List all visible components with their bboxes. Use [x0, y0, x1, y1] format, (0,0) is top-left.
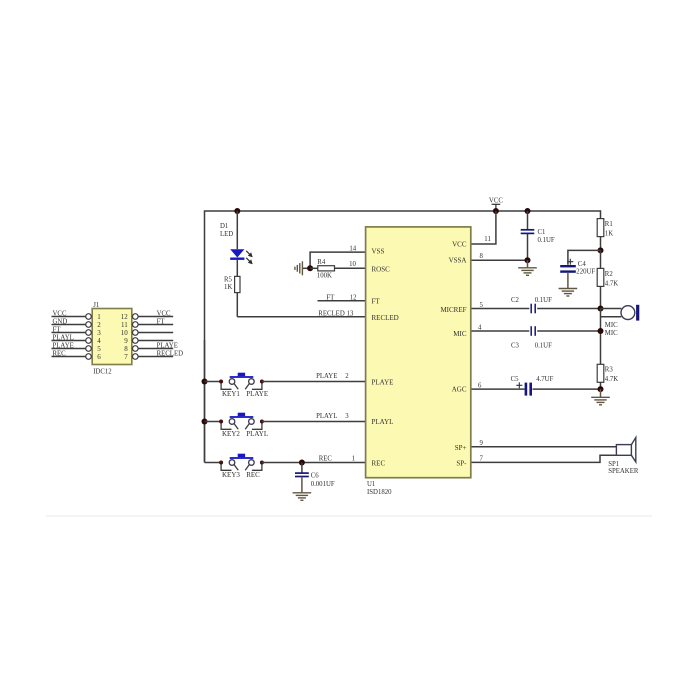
wire: J1 pin 4 lead [52, 340, 86, 342]
svg-text:KEY1: KEY1 [222, 390, 240, 398]
junction: VCC stem on rail [493, 208, 499, 214]
svg-text:C3: C3 [511, 342, 520, 349]
wire: pin 6 AGC to C5 [470, 388, 525, 390]
svg-text:0.001UF: 0.001UF [311, 481, 335, 488]
svg-text:VCC: VCC [489, 197, 503, 204]
svg-text:MIC: MIC [453, 330, 467, 338]
wire: rail to pin 11 drop [470, 211, 496, 244]
svg-text:13: 13 [347, 311, 354, 318]
J1 pin 10 circle [133, 330, 139, 336]
resistor R1 [600, 210, 602, 218]
J1 pin 3 circle [86, 330, 92, 336]
wire: ground stem under C1 [527, 260, 529, 268]
svg-text:100K: 100K [317, 273, 332, 280]
svg-text:10: 10 [121, 329, 129, 337]
wire: J1 pin 9 lead [138, 340, 173, 342]
svg-text:12: 12 [350, 295, 357, 302]
wire: pin 4 MIC to C3 [470, 330, 529, 332]
svg-text:PLAYE: PLAYE [53, 343, 74, 350]
svg-text:FT: FT [157, 319, 166, 326]
J1 pin 4 circle [86, 338, 92, 344]
wire: J1 pin 5 lead [52, 348, 86, 350]
wire: C3 to mic bus [537, 330, 600, 332]
svg-text:12: 12 [121, 313, 129, 321]
junction: VSSA ground node [525, 257, 531, 263]
wire: rail to LED [236, 211, 238, 249]
wire: mic bottom terminal [601, 316, 622, 318]
svg-text:6: 6 [478, 382, 482, 389]
wire: node to C4 branch [568, 250, 601, 264]
J1 pin 7 circle [133, 354, 139, 360]
svg-text:0.1UF: 0.1UF [535, 297, 552, 304]
junction: C1 on rail [525, 208, 531, 214]
ground symbol under R3/AGC [591, 397, 610, 405]
wire: C6 top stem [301, 463, 303, 473]
plus sign for C5 [516, 382, 522, 388]
svg-text:SP-: SP- [456, 460, 467, 468]
svg-text:RECLED: RECLED [318, 311, 345, 318]
wire: J1 pin 11 lead [138, 324, 173, 326]
svg-text:0.1UF: 0.1UF [535, 342, 552, 349]
svg-text:4: 4 [478, 324, 482, 331]
junction: LED column to rail [234, 208, 240, 214]
ground symbol under C4 [559, 289, 578, 297]
wire: ground stem under R3 [600, 389, 602, 397]
svg-text:REC: REC [319, 456, 333, 463]
svg-text:PLAYE: PLAYE [316, 373, 337, 380]
wire: RECLED row to IC pin 13 [237, 316, 366, 318]
svg-text:R5: R5 [224, 277, 233, 284]
svg-text:1K: 1K [605, 230, 613, 237]
svg-text:4: 4 [97, 337, 101, 345]
svg-text:KEY3: KEY3 [222, 471, 240, 479]
svg-text:MIC: MIC [605, 322, 618, 329]
svg-text:4.7K: 4.7K [605, 280, 618, 287]
svg-text:PLAYL: PLAYL [316, 413, 337, 420]
svg-text:3: 3 [345, 413, 349, 420]
resistor R3 [597, 364, 604, 382]
wire: C4 bottom stem [567, 273, 569, 289]
wire: J1 pin 12 lead [138, 316, 173, 318]
svg-text:ISD1820: ISD1820 [367, 489, 392, 496]
svg-text:0.1UF: 0.1UF [538, 237, 555, 244]
wire: R1 bottom to node [600, 237, 602, 251]
svg-text:FT: FT [53, 327, 62, 334]
resistor R5 [235, 276, 240, 292]
wire: KEY3 to IC pin 1 [262, 462, 366, 464]
svg-text:IDC12: IDC12 [93, 368, 112, 375]
capacitor C2 [531, 304, 535, 314]
pushbutton KEY3 terminal dots [219, 461, 264, 465]
wire: C1 bottom stem to VSSA node [527, 234, 529, 260]
ground symbol (analog ground under C1) [518, 268, 537, 276]
svg-text:RECLED: RECLED [157, 351, 184, 358]
J1 pin 6 circle [86, 354, 92, 360]
IC U1 ISD1820 body [366, 227, 471, 478]
wire: R3 bottom to AGC node [600, 382, 602, 389]
capacitor C6 [295, 473, 309, 476]
svg-text:VCC: VCC [452, 240, 467, 248]
svg-text:FT: FT [326, 295, 335, 302]
J1 pin 1 circle [86, 314, 92, 320]
pushbutton KEY1 terminal dots [219, 380, 264, 384]
wire: C6 bottom stem [301, 477, 303, 493]
wire: R4 to IC pin 10 ROSC [335, 267, 367, 269]
svg-text:KEY2: KEY2 [222, 430, 240, 438]
wire: C2 to mic node [537, 308, 600, 310]
svg-text:VCC: VCC [157, 311, 171, 318]
svg-text:8: 8 [480, 253, 484, 260]
svg-text:PLAYL: PLAYL [372, 418, 394, 426]
wire: J1 pin 1 lead [52, 316, 86, 318]
svg-text:C5: C5 [511, 376, 520, 383]
svg-text:C1: C1 [538, 229, 546, 236]
svg-text:AGC: AGC [452, 385, 467, 393]
svg-text:PLAYE: PLAYE [246, 390, 268, 398]
svg-text:REC: REC [246, 471, 260, 479]
svg-text:REC: REC [372, 460, 386, 468]
svg-text:9: 9 [124, 337, 128, 345]
wire: C5 to AGC node [533, 388, 601, 390]
LED light arrows [246, 251, 252, 264]
J1 pin 2 circle [86, 322, 92, 328]
wire: C1 top stem [527, 211, 529, 229]
junction: R1/R2/C4 node [598, 247, 604, 253]
wire: bus to KEY1 [205, 381, 222, 383]
svg-text:5: 5 [480, 302, 484, 309]
microphone MIC body [621, 306, 635, 320]
svg-text:220UF: 220UF [576, 269, 595, 276]
wire: mic top terminal [601, 308, 622, 310]
svg-text:MICREF: MICREF [440, 306, 466, 314]
svg-text:1K: 1K [224, 284, 232, 291]
resistor R2 [600, 250, 602, 268]
svg-text:D1: D1 [220, 223, 228, 230]
J1 pin 12 circle [133, 314, 139, 320]
svg-text:R4: R4 [317, 259, 326, 266]
pushbutton KEY1 actuator [230, 373, 254, 378]
svg-text:2: 2 [97, 321, 101, 329]
wire: KEY1 to IC pin 2 [262, 381, 366, 383]
svg-text:14: 14 [349, 246, 356, 253]
wire: pin 14 VSS run [310, 252, 366, 268]
svg-text:6: 6 [97, 353, 101, 361]
pushbutton KEY1 contacts [221, 382, 262, 390]
svg-text:4.7UF: 4.7UF [536, 376, 553, 383]
junction: C6 tap on REC wire [299, 460, 305, 466]
svg-text:11: 11 [484, 236, 491, 243]
svg-text:8: 8 [124, 345, 128, 353]
junction: bus to KEY2 row [202, 419, 208, 425]
svg-text:PLAYE: PLAYE [157, 343, 178, 350]
wire: KEY2 to IC pin 3 [262, 421, 366, 423]
capacitor C3 [531, 326, 535, 336]
J1 pin 8 circle [133, 346, 139, 352]
wire: bus to KEY2 [205, 421, 222, 423]
wire: R5 to RECLED row [236, 293, 238, 317]
wire: J1 pin 2 lead [52, 324, 86, 326]
wire: J1 pin 10 lead [138, 332, 173, 334]
J1 pin 5 circle [86, 346, 92, 352]
wire: J1 pin 8 lead [138, 348, 173, 350]
svg-text:5: 5 [97, 345, 101, 353]
pushbutton KEY2 terminal dots [219, 420, 264, 424]
wire: pin 9 SP+ to speaker [470, 446, 616, 448]
svg-text:VSS: VSS [372, 248, 385, 256]
svg-text:VSSA: VSSA [449, 257, 467, 265]
wire: LED to R5 [236, 260, 238, 277]
svg-text:VCC: VCC [53, 311, 67, 318]
LED D1 symbol [230, 249, 244, 259]
wire: pin 7 SP- run [470, 455, 616, 462]
svg-text:1: 1 [97, 313, 101, 321]
svg-text:REC: REC [53, 351, 67, 358]
wire: mic node bus down to R3 [600, 309, 602, 365]
svg-text:9: 9 [480, 440, 484, 447]
svg-text:PLAYL: PLAYL [246, 430, 268, 438]
pushbutton KEY1 terminal circles [229, 379, 254, 385]
pushbutton KEY2 terminal circles [229, 419, 254, 425]
wire: top VCC rail [205, 211, 601, 463]
svg-text:4.7K: 4.7K [605, 376, 618, 383]
capacitor C1 [521, 230, 535, 234]
svg-text:1: 1 [352, 456, 355, 463]
pushbutton KEY3 actuator [230, 454, 254, 459]
pushbutton KEY2 actuator [230, 413, 254, 418]
wire: pin 5 MICREF to C2 [470, 308, 529, 310]
wire: FT stub to IC pin 12 [318, 300, 367, 302]
svg-text:11: 11 [121, 321, 128, 329]
svg-text:10: 10 [349, 261, 356, 268]
wire: bus corner to KEY3 [205, 462, 222, 464]
ground symbol left of R4 [295, 261, 303, 275]
microphone MIC electret bar [636, 305, 639, 321]
svg-text:SPEAKER: SPEAKER [608, 468, 639, 475]
ground symbol under C6 [293, 493, 312, 501]
svg-text:J1: J1 [93, 302, 99, 309]
capacitor C4 (polarized) [560, 266, 576, 271]
capacitor C5 (polarized) [526, 383, 531, 396]
junction: AGC/R3 ground node [598, 386, 604, 392]
svg-text:LED: LED [220, 231, 233, 238]
resistor R4 [310, 267, 318, 269]
svg-text:C6: C6 [311, 472, 320, 479]
J1 pin 9 circle [133, 338, 139, 344]
svg-text:SP1: SP1 [608, 461, 619, 468]
wire: J1 pin 3 lead [52, 332, 86, 334]
power symbol VCC [492, 204, 501, 211]
pushbutton KEY3 contacts [221, 463, 262, 471]
svg-text:3: 3 [97, 329, 101, 337]
wire: ground stem left of R4 [303, 267, 310, 269]
svg-text:ROSC: ROSC [372, 265, 391, 273]
svg-text:PLAYL: PLAYL [53, 335, 74, 342]
svg-text:7: 7 [480, 456, 484, 463]
svg-text:SP+: SP+ [455, 444, 467, 452]
speaker SP1 body [616, 438, 635, 462]
svg-text:R3: R3 [605, 367, 614, 374]
faint sheet edge line [46, 515, 652, 517]
junction: bus to KEY1 row [202, 379, 208, 385]
svg-text:PLAYE: PLAYE [372, 379, 394, 387]
J1 pin 11 circle [133, 322, 139, 328]
svg-text:R2: R2 [605, 271, 614, 278]
junction: R4/VSS ground node [307, 265, 313, 271]
junction: MIC node on bus [598, 328, 604, 334]
pushbutton KEY3 terminal circles [229, 460, 254, 466]
plus sign for C4 [567, 259, 573, 265]
svg-text:C4: C4 [578, 261, 587, 268]
svg-text:FT: FT [372, 298, 381, 306]
svg-text:R1: R1 [605, 221, 613, 228]
wire: R2 bottom to MICREF node [600, 286, 602, 308]
connector J1 IDC12 body [92, 309, 132, 365]
svg-text:U1: U1 [367, 481, 375, 488]
svg-text:C2: C2 [511, 297, 520, 304]
svg-text:7: 7 [124, 353, 128, 361]
pushbutton KEY2 contacts [221, 422, 262, 430]
svg-text:RECLED: RECLED [372, 314, 399, 322]
wire: left vertical bus [204, 340, 206, 463]
wire: J1 pin 6 lead [52, 356, 86, 358]
wire: pin 8 VSSA to ground node [470, 259, 528, 261]
svg-text:GND: GND [53, 319, 68, 326]
wire: J1 pin 7 lead [138, 356, 173, 358]
junction: MICREF/mic node [598, 306, 604, 312]
svg-text:2: 2 [345, 373, 349, 380]
svg-text:MIC: MIC [605, 330, 618, 337]
